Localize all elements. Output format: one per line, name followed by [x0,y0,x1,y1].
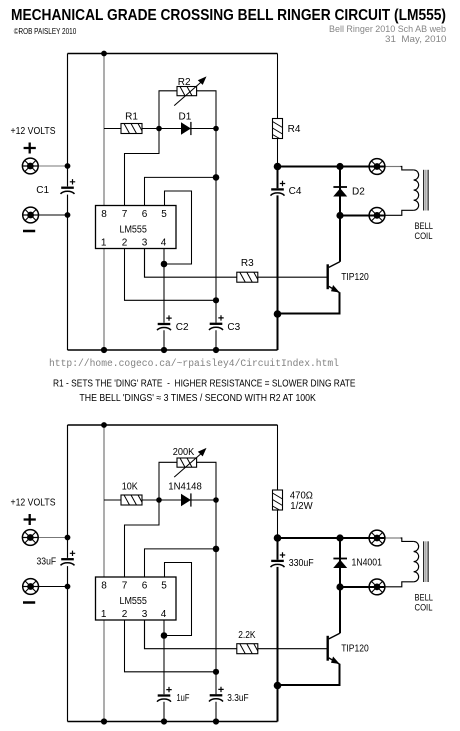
svg-text:C2: C2 [176,322,189,333]
svg-text:LM555: LM555 [119,224,147,235]
svg-text:330uF: 330uF [289,558,314,569]
svg-text:R4: R4 [288,124,301,135]
svg-text:D2: D2 [352,186,365,197]
svg-text:TIP120: TIP120 [341,272,369,283]
svg-text:2: 2 [122,237,128,248]
svg-text:1: 1 [101,237,107,248]
svg-text:1/2W: 1/2W [290,501,313,512]
svg-text:+12 VOLTS: +12 VOLTS [11,126,56,137]
svg-text:1N4148: 1N4148 [168,481,202,492]
svg-text:R2: R2 [178,77,191,88]
svg-text:5: 5 [161,209,167,220]
svg-text:10K: 10K [122,482,138,493]
svg-text:C4: C4 [289,186,302,197]
svg-text:COIL: COIL [415,231,433,242]
svg-text:200K: 200K [173,447,195,458]
svg-text:2.2K: 2.2K [238,630,256,641]
svg-text:http://home.cogeco.ca/~rpaisle: http://home.cogeco.ca/~rpaisley4/Circuit… [49,358,339,370]
svg-text:R1: R1 [125,112,138,123]
svg-text:MECHANICAL GRADE CROSSING BELL: MECHANICAL GRADE CROSSING BELL RINGER CI… [11,7,446,24]
svg-text:1uF: 1uF [177,693,190,704]
svg-text:4: 4 [161,237,167,248]
svg-text:31 May, 2010: 31 May, 2010 [385,34,447,45]
svg-text:R1 - SETS THE 'DING' RATE -: R1 - SETS THE 'DING' RATE - HIGHER RESIS… [53,379,356,390]
svg-text:THE BELL 'DINGS' ≈ 3 TIMES / S: THE BELL 'DINGS' ≈ 3 TIMES / SECOND WITH… [79,393,316,404]
svg-text:7: 7 [122,209,128,220]
svg-text:3: 3 [142,237,148,248]
svg-text:©ROB PAISLEY 2010: ©ROB PAISLEY 2010 [14,26,77,36]
svg-text:6: 6 [142,209,148,220]
svg-text:33uF: 33uF [37,557,57,568]
svg-text:D1: D1 [179,111,192,122]
svg-text:3.3uF: 3.3uF [227,693,248,704]
svg-text:R3: R3 [241,258,254,269]
svg-text:8: 8 [101,209,107,220]
svg-text:C3: C3 [227,322,240,333]
svg-text:1N4001: 1N4001 [352,558,383,569]
svg-text:C1: C1 [36,185,49,196]
